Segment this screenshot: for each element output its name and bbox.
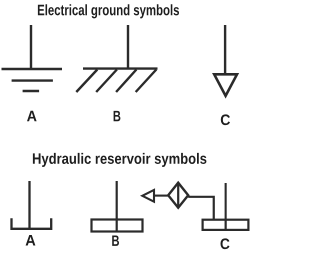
label A <box>26 235 36 245</box>
earth bar 2 <box>12 79 53 81</box>
label B <box>112 235 119 245</box>
wire arrow to filter <box>154 195 168 197</box>
hatch 1 <box>76 70 97 93</box>
label A <box>27 111 37 121</box>
supply wire C <box>225 183 227 220</box>
reservoir symbol C (tank with filter and arrow) <box>142 183 248 230</box>
earth bar 1 <box>2 68 63 70</box>
closed tank <box>92 220 143 232</box>
wire filter to tank (elbow) <box>188 197 214 219</box>
ground symbol C (signal ground) <box>214 25 237 96</box>
ground symbol B (chassis ground) <box>76 25 157 92</box>
supply wire inside tank <box>225 220 227 230</box>
ground symbol A (earth ground) <box>2 25 63 91</box>
hatch 3 <box>116 70 136 93</box>
hatch 2 <box>96 70 117 93</box>
reservoir symbol B (pressurized tank) <box>92 181 143 232</box>
reservoir symbol A (vented tank) <box>12 181 52 229</box>
label B <box>114 111 121 121</box>
wire B <box>116 181 118 220</box>
filter center line <box>177 183 179 208</box>
wire C <box>224 25 226 74</box>
label C <box>221 238 230 249</box>
chassis bar <box>83 67 158 69</box>
wire B inside tank <box>116 220 118 232</box>
closed tank <box>203 220 249 230</box>
title: Electrical ground symbols <box>38 4 179 18</box>
label C <box>221 114 230 125</box>
triangle <box>214 74 237 96</box>
title: Hydraulic reservoir symbols <box>33 153 207 167</box>
wire A <box>30 25 32 69</box>
filter diamond <box>168 183 188 208</box>
wire A <box>28 181 30 229</box>
arrow head <box>142 190 154 202</box>
earth bar 3 <box>23 90 39 93</box>
hatch 4 <box>136 70 157 93</box>
wire B <box>127 25 129 69</box>
open tank <box>12 218 52 229</box>
